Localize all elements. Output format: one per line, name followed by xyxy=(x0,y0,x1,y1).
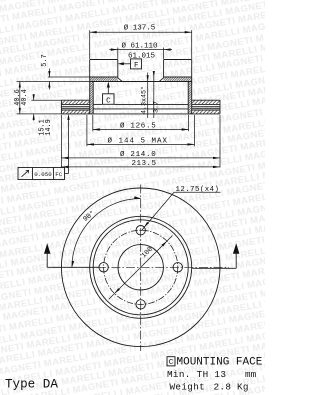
dimension 100 bolt circle xyxy=(109,236,173,300)
dimension 213.5 xyxy=(61,160,220,168)
dimension dia 61.110 / 61.015 xyxy=(109,41,172,60)
dimension dia 144.5 MAX xyxy=(87,115,195,146)
section hatch left flange xyxy=(90,77,118,82)
front view centre bore dia 61 xyxy=(118,245,163,290)
svg-text:Type DA: Type DA xyxy=(5,378,58,392)
svg-text:Ø 137.5: Ø 137.5 xyxy=(124,24,156,33)
section mounting face xyxy=(90,81,192,83)
front view hat outer circle dia 137.5 xyxy=(90,216,192,318)
svg-text:40.4: 40.4 xyxy=(21,89,29,106)
section vent slot bottom edges xyxy=(61,109,220,111)
datum label C xyxy=(103,82,115,106)
vertical centreline xyxy=(140,185,142,352)
dimension 5.7 xyxy=(41,54,89,89)
svg-text:Weight: Weight xyxy=(170,381,206,392)
bolt hole right xyxy=(173,263,182,272)
svg-text:3.7: 3.7 xyxy=(152,101,160,113)
section hatch left wall xyxy=(90,82,94,114)
section hatch left band plates xyxy=(61,100,89,114)
section bore chamfer 4.3x45 xyxy=(118,78,164,82)
svg-text:4.3x45°: 4.3x45° xyxy=(139,86,148,114)
horizontal centreline xyxy=(53,266,229,268)
note 4.3x45 and 3.7 xyxy=(139,71,160,118)
bolt hole bottom xyxy=(136,300,145,309)
front view hat inner circle dia 126.5 xyxy=(93,220,188,315)
section pilot top edges xyxy=(90,76,192,78)
runout tolerance frame 0.050 FC xyxy=(18,114,70,180)
section centre bore walls xyxy=(118,60,164,78)
section hat outer walls xyxy=(90,60,192,114)
section far-side vent lines xyxy=(93,104,188,109)
section hatch right band plates xyxy=(192,100,220,114)
svg-text:2.8: 2.8 xyxy=(214,381,232,392)
svg-text:213.5: 213.5 xyxy=(131,160,156,168)
section vent slot inner lines xyxy=(61,107,220,109)
svg-text:5.7: 5.7 xyxy=(41,54,49,66)
front view bolt circle dia 100 xyxy=(104,230,178,304)
svg-text:FC: FC xyxy=(55,171,63,178)
svg-text:Kg: Kg xyxy=(237,381,249,392)
bolt hole left xyxy=(99,263,108,272)
dimension dia 214.0 xyxy=(61,115,220,160)
leader 12.75(x4) xyxy=(141,186,220,231)
svg-text:Min. TH 13: Min. TH 13 xyxy=(167,369,226,380)
note Type DA xyxy=(5,378,58,392)
section hat top face xyxy=(90,59,192,61)
section hatch right wall xyxy=(188,82,192,114)
datum label F xyxy=(118,59,142,70)
svg-text:Ø 61.110: Ø 61.110 xyxy=(121,41,158,50)
section arrow right xyxy=(192,243,239,268)
section arrow left xyxy=(44,243,99,267)
svg-text:Ø 214.0: Ø 214.0 xyxy=(120,150,156,159)
svg-text:Ø 126.5: Ø 126.5 xyxy=(120,122,156,131)
svg-text:C: C xyxy=(106,97,111,105)
svg-text:mm: mm xyxy=(245,369,257,380)
svg-text:0.050: 0.050 xyxy=(34,171,52,178)
svg-text:C: C xyxy=(169,359,174,367)
front view outer circle dia 214 xyxy=(61,188,220,347)
svg-text:MOUNTING FACE: MOUNTING FACE xyxy=(177,357,263,369)
svg-text:Ø 144 5 MAX: Ø 144 5 MAX xyxy=(108,136,169,145)
section braking band top faces xyxy=(61,99,220,101)
bolt hole top xyxy=(136,226,145,235)
note mounting face / thickness / weight xyxy=(167,357,263,393)
dimension dia 126.5 xyxy=(93,115,189,131)
dimension dia 137.5 xyxy=(90,24,192,59)
section hatch right flange xyxy=(164,77,192,82)
section hat inner walls xyxy=(93,82,188,114)
section disc outer edges xyxy=(61,100,220,114)
svg-text:14.9: 14.9 xyxy=(45,119,53,136)
dimension 90 degrees arc xyxy=(72,196,141,267)
svg-text:F: F xyxy=(134,62,139,70)
dimension 15.1 / 14.9 xyxy=(17,94,62,136)
section disc bottom face xyxy=(61,113,220,115)
dimension 40.6 / 40.4 xyxy=(14,82,90,114)
section vent slot top edges xyxy=(61,103,220,105)
